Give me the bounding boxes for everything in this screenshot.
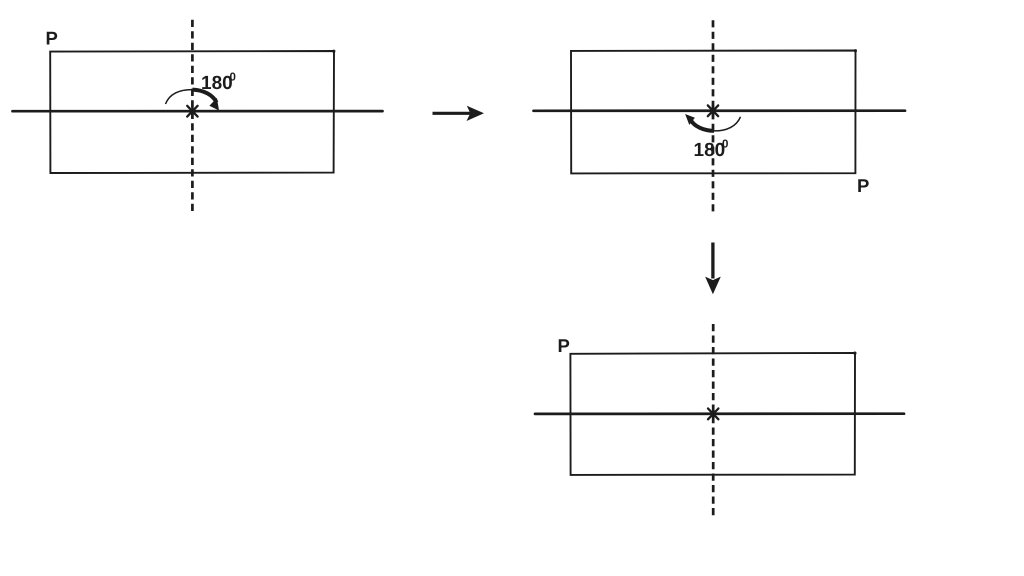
svg-text:180: 180 — [201, 73, 233, 94]
horizontal line (figure 3) — [535, 412, 904, 415]
svg-text:0: 0 — [230, 72, 236, 84]
svg-text:P: P — [857, 175, 869, 196]
center point x-marker (figure 1) — [187, 106, 197, 118]
corner dot (figure 3 top-right) — [853, 352, 856, 355]
rectangle (figure 3) — [570, 353, 855, 475]
vertical dashed mirror line (figure 3) — [712, 324, 715, 520]
svg-text:180: 180 — [694, 140, 726, 161]
right arrow shaft — [433, 112, 472, 115]
down arrow head — [705, 277, 721, 295]
svg-text:P: P — [46, 28, 58, 49]
horizontal line (figure 1) — [13, 110, 383, 113]
center point x-marker (figure 3) — [708, 408, 718, 420]
arrowhead of rotation arc (figure 1) — [209, 98, 219, 111]
vertical dashed mirror line (figure 1) — [191, 20, 194, 215]
rotation arc arrow (figure 2) — [714, 117, 741, 131]
arrowhead of rotation arc (figure 2) — [685, 114, 695, 125]
corner dot (figure 1 top-right) — [332, 50, 335, 53]
horizontal line (figure 2) — [534, 109, 906, 112]
svg-text:0: 0 — [722, 139, 728, 151]
svg-text:P: P — [558, 335, 570, 356]
down arrow shaft — [711, 243, 714, 279]
rectangle (figure 2) — [571, 51, 856, 174]
corner dot (figure 2 top-right) — [854, 49, 857, 52]
center point x-marker (figure 2) — [708, 105, 718, 117]
right arrow head — [467, 106, 485, 121]
vertical dashed mirror line (figure 2) — [712, 20, 715, 214]
rotation arc arrow (figure 1) — [166, 90, 193, 104]
rectangle (figure 1) — [50, 51, 334, 173]
